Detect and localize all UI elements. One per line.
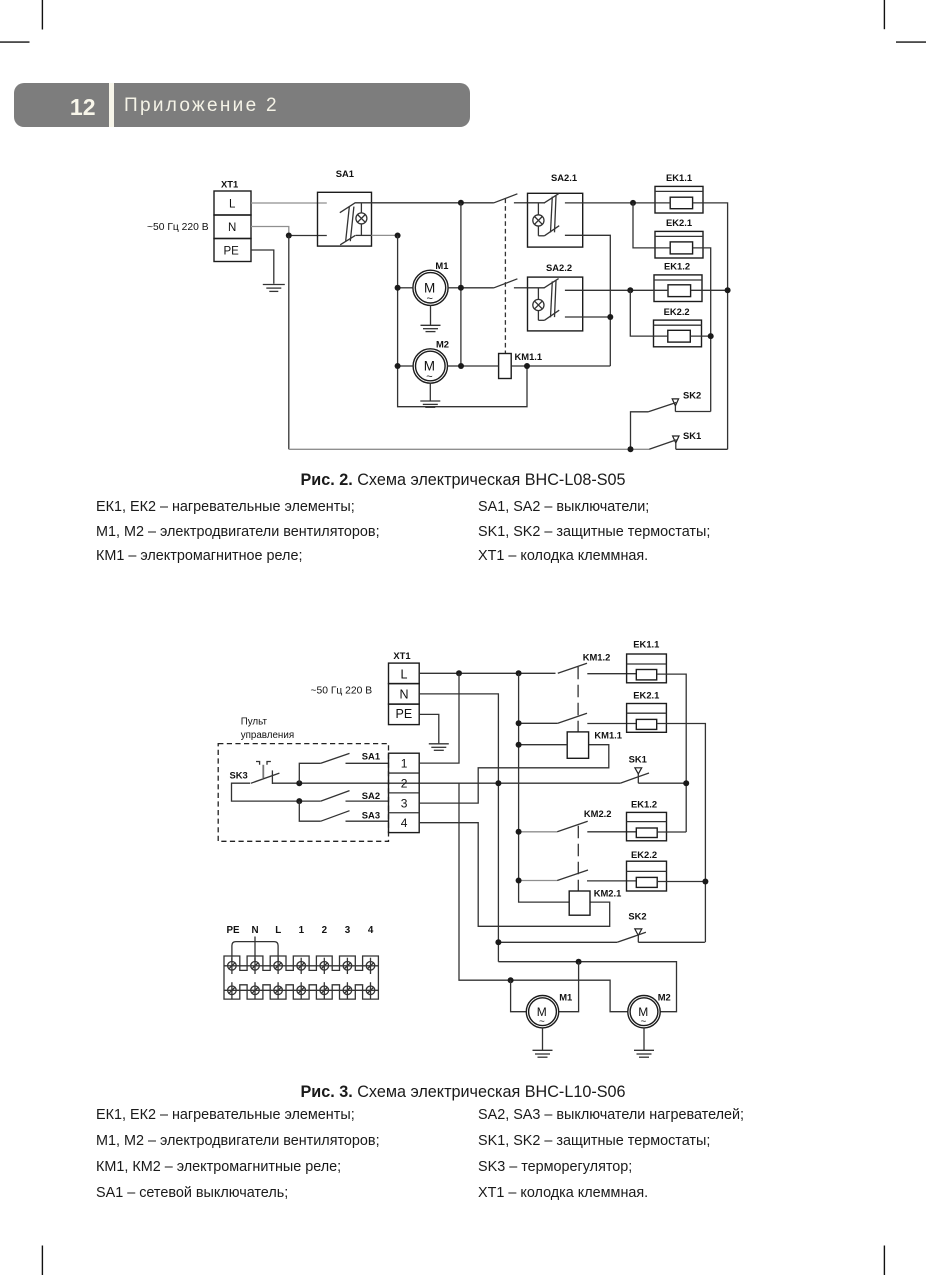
wire L bus [419,672,555,674]
caption figure 3 [0,1083,926,1102]
svg-text:L: L [275,925,281,936]
control terminal block 1-4 [389,753,420,832]
jumper PE to L [232,942,278,962]
wire bottom return [289,448,649,450]
terminal strip labels [226,925,373,936]
svg-text:EK1.1: EK1.1 [633,639,659,650]
wire M2 right [448,365,462,367]
svg-text:EK1.2: EK1.2 [664,261,690,272]
wire coil left [461,365,499,367]
svg-text:SK3: SK3 [230,770,248,781]
svg-text:M1: M1 [435,260,448,271]
wire EK2.1 out [693,248,711,412]
heater EK1.2 [627,812,667,840]
wire SK3 fixed to terminal 2 [273,782,420,784]
mechanical link dashed [504,199,506,354]
legend figure 2 [96,499,355,515]
wire EK1.2 in [630,289,668,291]
wire right motor bus vertical [460,203,462,366]
wire EK2.1 in [633,203,670,248]
relay contact KM2.2 pole 1 [519,821,637,832]
junction L node [458,200,464,206]
wire EK2.1 out [657,724,706,943]
junction motor feed M1 [508,977,514,983]
wire terminal 2 down to motor feed [459,783,511,980]
wire terminal 1 to L [419,673,459,763]
ground PE [429,744,449,751]
wire N down [419,694,498,962]
relay contact KM1.2 pole 1 [558,663,637,673]
svg-text:SK2: SK2 [683,390,701,401]
switch SA2 [321,791,389,802]
wire M1 left [398,287,413,289]
crop mark top-left horizontal [0,41,30,43]
junction L to coil bus [516,670,522,676]
svg-text:EK2.1: EK2.1 [633,690,659,701]
wire terminal 4 to coil KM2.1 [419,823,610,927]
crop mark bottom-right vertical [883,1246,885,1275]
svg-text:SA1: SA1 [336,168,354,179]
wire SA2.1 top out to EK node [583,202,633,204]
crop mark top-right vertical [883,0,885,29]
svg-text:SA3: SA3 [362,809,380,820]
ground M1 [421,305,441,331]
junction coil KM1.1 left [516,742,522,748]
svg-text:KM2.2: KM2.2 [584,808,612,819]
wire terminal 2 row to SK1 [419,782,620,784]
crop mark top-right horizontal [896,41,926,43]
wire PE to ground [251,250,274,284]
terminal strip screws row 1 [228,958,375,974]
switch SA3 [299,801,388,821]
svg-text:EK2.1: EK2.1 [666,217,692,228]
svg-text:PE: PE [396,707,413,721]
wire SA2.2 top out [583,289,631,291]
terminal block XT1 [214,191,251,262]
wire EK1.1 in [633,202,670,204]
motor M1 [413,270,448,305]
wire terminal 3 to coil KM1.1 [419,745,609,803]
wire M1 return [559,962,579,1012]
svg-text:KM1.1: KM1.1 [594,729,622,740]
svg-text:M2: M2 [658,992,671,1003]
svg-text:EK1.2: EK1.2 [631,799,657,810]
switch SA1 [318,192,372,246]
wire EK2.2 out [690,335,710,337]
wire SA1 out bottom [372,234,398,236]
svg-text:~: ~ [641,1017,647,1028]
svg-text:4: 4 [401,816,408,830]
relay contact KM1 pole 1 [494,194,528,203]
junction KM2.2 pole2 [516,878,522,884]
svg-text:SA2: SA2 [362,790,380,801]
terminal block XT1 [389,663,420,725]
ground M2 [420,383,440,407]
svg-text:SK1: SK1 [629,754,647,765]
wire M1 feed [511,980,527,1012]
wire N to motors return [498,962,676,1012]
junction SA2.2 bottom [607,314,613,320]
thermoregulator SK3 [251,762,280,785]
heater EK1.2 [654,275,702,302]
heater EK2.2 [654,320,702,347]
mechanical link KM1 dashed [577,667,579,732]
svg-text:KM2.1: KM2.1 [594,887,622,898]
wire EK2.2 out [657,881,705,883]
wire N to SK2 row [498,941,617,943]
svg-text:XT1: XT1 [393,650,410,661]
junction SK1 to EK column [683,780,689,786]
heater EK1.1 [627,654,667,683]
junction SA2 SA3 branch [296,798,302,804]
svg-text:M2: M2 [436,339,449,350]
svg-text:XT1: XT1 [221,179,238,190]
svg-text:~50 Гц 220 В: ~50 Гц 220 В [311,686,373,697]
svg-text:управления: управления [241,730,294,741]
junction M1 right [458,285,464,291]
switch SA1 [299,753,388,783]
wire N vertical to bottom [288,236,290,450]
svg-text:4: 4 [368,925,374,936]
wire SA2.2 bottom out [583,316,611,318]
mechanical link KM2 dashed [577,826,579,891]
junction EK2.2 out [708,333,714,339]
junction L to terminal 1 [456,670,462,676]
junction M1 left [395,285,401,291]
relay contact KM2.2 pole 2 [519,870,637,881]
terminal strip screws row 2 [228,982,375,998]
svg-text:N: N [252,925,259,936]
junction coil right [524,363,530,369]
wire EK1.1 out [693,203,728,449]
svg-text:SA2.2: SA2.2 [546,262,572,273]
svg-text:EK1.1: EK1.1 [666,172,692,183]
svg-text:~: ~ [539,1017,545,1028]
wire EK1.2 out [657,831,686,833]
svg-text:KM1.2: KM1.2 [583,652,611,663]
svg-text:SA1: SA1 [362,750,380,761]
thermostat SK2 [617,929,705,942]
wire N down to node [251,227,289,236]
heater EK2.1 [655,231,703,258]
control panel dashed box [218,744,388,842]
svg-text:3: 3 [401,796,408,810]
wire EK1.1 out [657,674,687,832]
junction SA1 bottom [395,233,401,239]
svg-text:~: ~ [426,371,432,383]
svg-text:N: N [400,688,409,702]
svg-text:EK2.2: EK2.2 [631,849,657,860]
relay contact KM1.2 pole 2 [519,713,637,723]
switch SA2.1 [528,193,583,247]
thermostat SK1 [620,768,686,783]
wire M2 left [398,365,414,367]
junction N at terminal 2 row [495,780,501,786]
wire left motor bus vertical [398,236,527,407]
ground PE [263,285,285,292]
svg-text:M1: M1 [559,992,572,1003]
wire L coil bus vertical [519,673,570,902]
legend figure 3 [96,1107,355,1123]
svg-text:~: ~ [427,293,433,305]
junction M2 left [395,363,401,369]
svg-text:SK1: SK1 [683,430,701,441]
svg-text:SK2: SK2 [628,911,646,922]
junction M1 return [576,959,582,965]
wire SK3 pivot loop [232,783,321,801]
svg-text:1: 1 [299,925,305,936]
terminal strip body [224,956,378,999]
svg-text:2: 2 [401,777,408,791]
svg-text:~50 Гц 220 В: ~50 Гц 220 В [147,222,209,233]
wire SA2.1 bottom out [583,235,611,366]
switch SA2.2 [528,277,583,331]
svg-text:PE: PE [226,925,240,936]
ground M1 [533,1028,553,1057]
heater EK1.1 [655,186,703,213]
relay coil KM1.1 [499,354,512,379]
svg-text:3: 3 [345,925,351,936]
svg-text:L: L [229,199,236,211]
wire EK2.2 in [630,290,668,336]
relay coil KM2.1 [569,891,590,915]
motor M1 [526,996,558,1028]
thermostat SK2 [631,399,711,449]
svg-text:PE: PE [224,246,240,258]
junction N node [286,233,292,239]
wire coil right [511,365,610,367]
junction bottom return [628,446,634,452]
motor M2 [413,349,447,383]
ground M2 [634,1028,654,1057]
junction EK1.1 in [630,200,636,206]
relay coil KM1.1 [567,732,588,758]
header pill [14,83,470,127]
junction EK2.2 out [702,879,708,885]
junction N SK2 [495,939,501,945]
svg-text:SA2.1: SA2.1 [551,172,577,183]
svg-text:N: N [228,222,236,234]
junction EK1.2 in [627,287,633,293]
svg-text:1: 1 [401,757,408,771]
heater EK2.2 [627,861,667,891]
junction KM2.2 pole1 [516,829,522,835]
wire coil KM1.1 left [519,744,568,746]
wire node N to SA1 [289,235,327,237]
junction SA1 branch [296,780,302,786]
junction M2 right [458,363,464,369]
svg-text:2: 2 [322,925,328,936]
svg-text:EK2.2: EK2.2 [664,306,690,317]
crop mark bottom-left vertical [41,1246,43,1275]
svg-text:KM1.1: KM1.1 [515,351,543,362]
wire motor feed to M2 [511,980,628,1012]
wire L to SA1 [251,202,327,204]
motor M2 [628,996,660,1028]
stem N [254,937,256,962]
junction contact pole2 [516,720,522,726]
wire PE to ground [419,714,439,743]
thermostat SK1 [649,436,727,449]
wire SA1 out top [372,202,494,204]
relay contact KM1 pole 2 [461,279,528,288]
junction EK1.2 out [725,287,731,293]
caption figure 2 [0,471,926,490]
svg-text:Пульт: Пульт [241,717,268,728]
heater EK2.1 [627,704,667,733]
wire EK1.2 out [691,289,728,291]
crop mark top-left vertical [41,0,43,30]
wire M1 right [448,287,461,289]
svg-text:L: L [401,668,408,682]
